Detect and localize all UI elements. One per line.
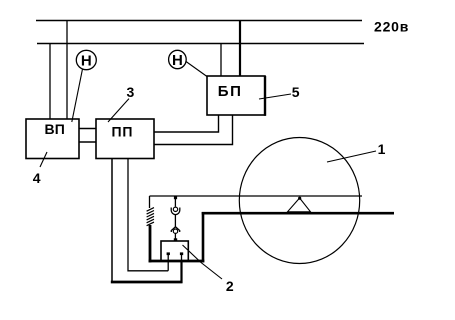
wire PP to pin B bottom run (thick) [111, 281, 183, 284]
leader to label 1 [327, 151, 376, 162]
float switch box 2 [161, 241, 188, 261]
svg-text:Н: Н [81, 52, 92, 69]
pipe right riser (thick) [202, 212, 205, 262]
wire hanger middle [174, 215, 176, 228]
power line L1 (top 220v bus) [36, 20, 362, 22]
terminal pin B in box 2 [180, 252, 183, 262]
svg-text:ПП: ПП [112, 124, 134, 140]
wire hanger lower [174, 233, 176, 239]
spring (hatched flexible element) [147, 208, 154, 226]
power line L2 (bottom 220v bus) [37, 43, 364, 45]
wire hanger upper [174, 197, 176, 207]
insulator link 1 [171, 207, 180, 215]
wire L1 to block VP [66, 21, 68, 120]
wire PP to pin A (thin loop) [128, 159, 168, 271]
svg-text:Н: Н [172, 52, 183, 69]
indicator H1 [76, 50, 96, 69]
block VP (ВП) [26, 119, 79, 159]
float pivot triangle [288, 197, 311, 212]
svg-text:220в: 220в [374, 19, 409, 35]
pipe VP riser (thick vertical) [149, 225, 152, 262]
svg-text:ВП: ВП [45, 121, 66, 137]
svg-text:БП: БП [218, 83, 243, 100]
drum 1 (tank circle) [239, 138, 359, 264]
svg-text:4: 4 [33, 170, 41, 186]
svg-text:2: 2 [226, 278, 234, 294]
leader H2 to BP [186, 62, 207, 77]
wire L2 to block VP [49, 44, 51, 120]
wire L2 to BP [220, 44, 222, 77]
wire PP to BP upper [154, 115, 219, 132]
svg-text:3: 3 [127, 84, 135, 100]
leader H1 to VP [72, 69, 83, 122]
wire level line down to spring [149, 196, 151, 208]
wire PP to pin B vertical [111, 159, 113, 283]
svg-text:5: 5 [292, 84, 300, 100]
wire L1 to BP (thick) [239, 21, 241, 77]
wire PP to BP lower [154, 115, 233, 145]
pipe bottom run (thick) [149, 260, 205, 263]
terminal on box 2 top [174, 238, 177, 241]
leader to label 3 [108, 99, 129, 122]
leader to label 5 [259, 94, 291, 99]
wire PP to pin B riser [180, 261, 182, 283]
junction on level line [174, 196, 177, 199]
indicator H2 [169, 50, 187, 69]
leader to label 4 [40, 152, 47, 167]
wire VP-PP upper [79, 128, 96, 130]
level line (thin) [150, 195, 363, 197]
terminal pin A in box 2 [167, 252, 170, 270]
wire VP-PP lower [79, 141, 96, 143]
block PP (ПП) [96, 119, 154, 159]
leader to label 2 [183, 245, 223, 279]
pipe top run into drum (thick) [202, 212, 394, 215]
insulator link 2 [171, 227, 179, 234]
svg-text:1: 1 [378, 141, 386, 157]
block BP (БП) [207, 76, 265, 116]
